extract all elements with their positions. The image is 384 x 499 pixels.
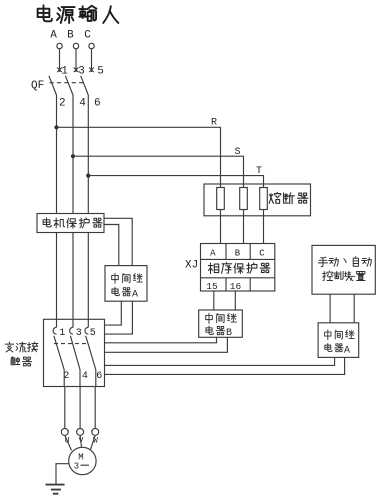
- svg-text:4: 4: [79, 98, 86, 110]
- wire XJ pin16 down: [234, 291, 236, 310]
- wire relay A right out2 to contactor: [105, 357, 345, 374]
- contactor label line1 交流接: [5, 342, 13, 352]
- svg-text:5: 5: [97, 66, 104, 78]
- svg-text:XJ: XJ: [185, 260, 198, 272]
- phase sequence protector XJ box: [201, 244, 275, 292]
- wire relay B out2 to contactor: [105, 337, 228, 352]
- QF terminal cross phase C: [89, 68, 94, 73]
- relay B box 中间继电器B: [199, 310, 243, 337]
- node junction T on L3: [86, 174, 90, 178]
- wire phase A drop to QF: [59, 49, 61, 72]
- relay A right label line1 中间继: [325, 330, 331, 340]
- terminal circle phase B: [73, 43, 78, 48]
- breaker QF pole blade 1: [49, 76, 57, 95]
- svg-text:A: A: [344, 345, 350, 356]
- svg-text:C: C: [84, 30, 91, 42]
- svg-text:C: C: [259, 248, 265, 258]
- breaker QF linkage dashed: [50, 82, 86, 84]
- wire terminal U to motor: [65, 435, 72, 450]
- wire contactor pole 2 bottom inside: [79, 370, 81, 387]
- wire motor to ground: [56, 464, 69, 484]
- svg-text:A: A: [132, 289, 138, 300]
- relay B label line1 中间继: [206, 313, 213, 323]
- wire phase C drop to QF: [91, 49, 93, 72]
- svg-text:B: B: [67, 30, 74, 42]
- XJ bottom row cell dividers: [226, 278, 250, 291]
- svg-text:R: R: [211, 118, 217, 129]
- contactor contact arc pole 2: [70, 327, 73, 334]
- motor protector box 电机保护器: [37, 214, 104, 233]
- contactor box 交流接触器: [44, 319, 105, 386]
- contactor contact arc pole 1: [53, 327, 56, 334]
- XJ box row divider lower: [201, 277, 275, 279]
- svg-text:S: S: [234, 147, 240, 158]
- relay A left label line1 中间继: [112, 273, 119, 283]
- svg-text:5: 5: [90, 328, 96, 339]
- wire phase B drop to QF: [75, 49, 77, 72]
- contactor label line2 触器: [11, 357, 20, 365]
- terminal circle W: [92, 428, 99, 435]
- svg-text:1: 1: [61, 66, 68, 78]
- fuse box FU outline: [204, 184, 311, 216]
- svg-text:3: 3: [74, 462, 79, 472]
- svg-text:3: 3: [76, 328, 82, 339]
- relay A left label line2 电器A: [112, 287, 119, 295]
- svg-text:6: 6: [96, 371, 102, 382]
- contactor blade pole 3: [86, 336, 96, 370]
- phase sequence label 相序保护器: [208, 263, 219, 274]
- terminal circle phase C: [89, 43, 94, 48]
- motor protector label 电机保护器: [43, 218, 51, 227]
- wire contactor to terminal W: [94, 387, 96, 429]
- manual-auto control box 手动、自动控制装置: [312, 245, 375, 294]
- relay A right box 中间继电器A: [318, 323, 359, 358]
- wire contactor to terminal V: [79, 387, 81, 429]
- breaker QF pole blade 3: [81, 76, 89, 95]
- relay A left box 中间继电器A: [105, 266, 147, 302]
- fuse element FU2: [240, 188, 248, 210]
- wire terminal W to motor: [91, 435, 96, 449]
- manual-auto label line2 控制装置: [322, 271, 332, 280]
- terminal circle U: [61, 428, 68, 435]
- node junction S on L2: [71, 154, 75, 158]
- wire S horizontal: [73, 156, 244, 187]
- svg-text:B: B: [235, 248, 241, 258]
- XJ box row divider upper: [201, 258, 275, 260]
- node junction R on L1: [54, 125, 58, 129]
- ground symbol: [46, 485, 65, 494]
- svg-text:15: 15: [206, 281, 218, 292]
- wire phase L2 vertical QF to contactor: [72, 95, 74, 327]
- contactor contact arc pole 3: [85, 327, 88, 334]
- wire terminal V to motor: [80, 435, 81, 447]
- svg-text:1: 1: [59, 328, 65, 339]
- svg-text:2: 2: [59, 98, 66, 110]
- svg-text:16: 16: [230, 281, 242, 292]
- wire control box to relay A right right: [353, 294, 355, 323]
- svg-text:6: 6: [94, 98, 101, 110]
- wire protector to relayA-left upper: [104, 218, 132, 265]
- fuse element FU1: [217, 188, 225, 210]
- wire T horizontal: [88, 176, 263, 188]
- wire contactor pole 1 bottom inside: [63, 370, 65, 387]
- terminal circle V: [77, 428, 84, 435]
- QF terminal cross phase A: [57, 68, 62, 73]
- relay A right label line2 电器A: [325, 343, 332, 351]
- manual-auto label line1 手动、自动: [318, 257, 327, 267]
- wire relay A right out1 to contactor: [105, 357, 335, 365]
- wire phase L1 vertical QF to contactor: [56, 95, 58, 327]
- breaker QF pole blade 2: [65, 76, 73, 95]
- wire control box to relay A right left: [329, 294, 331, 323]
- svg-text:4: 4: [82, 371, 88, 382]
- svg-text:A: A: [50, 30, 57, 42]
- contactor linkage dashed: [54, 343, 87, 345]
- wire contactor pole 3 bottom inside: [95, 370, 97, 387]
- svg-text:T: T: [256, 166, 262, 177]
- svg-text:A: A: [210, 248, 216, 258]
- wire relay A left out2 to contactor: [105, 301, 133, 334]
- XJ top row cell dividers: [226, 244, 250, 260]
- terminal circle phase A: [57, 43, 62, 48]
- wire relay A left out1 to contactor: [105, 301, 122, 325]
- wire protector to relayA-left lower: [104, 225, 119, 266]
- wire relay B out1 to contactor: [105, 337, 217, 343]
- wire contactor to terminal U: [64, 387, 66, 429]
- wire XJ pin15 down: [213, 291, 215, 310]
- fuse label 熔断器: [269, 192, 281, 203]
- svg-text:3: 3: [78, 66, 85, 78]
- contactor blade pole 2: [70, 336, 80, 370]
- label power input title 电源输入: [38, 5, 52, 21]
- fuse element FU3: [260, 188, 268, 210]
- QF terminal cross phase B: [74, 68, 79, 73]
- wire R horizontal: [57, 127, 221, 187]
- wire phase L3 vertical QF to contactor: [87, 95, 89, 327]
- motor M circle: [69, 447, 96, 474]
- relay B label line2 电器B: [206, 326, 213, 334]
- contactor blade pole 1: [54, 336, 64, 370]
- svg-text:QF: QF: [31, 80, 44, 92]
